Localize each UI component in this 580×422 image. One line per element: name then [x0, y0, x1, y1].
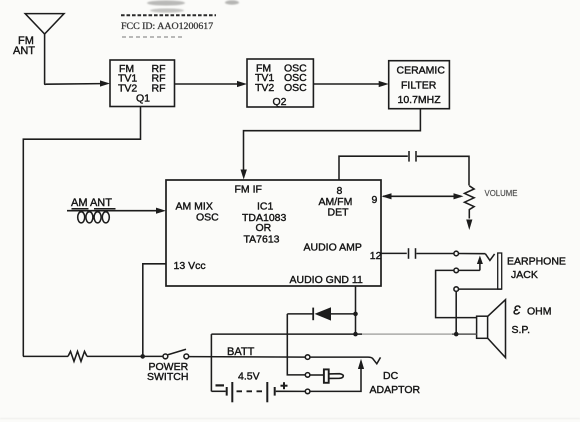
svg-text:AUDIO AMP: AUDIO AMP [304, 242, 362, 254]
svg-text:OSC: OSC [284, 82, 307, 94]
wire pin 12 to output capacitor [381, 252, 407, 254]
wire bottom ground net [211, 333, 476, 335]
svg-text:CERAMIC: CERAMIC [397, 64, 446, 76]
wire pin 9 wiper (double arrow) [382, 193, 464, 199]
label 8 OHM S.P. [512, 304, 552, 336]
svg-text:Q2: Q2 [273, 96, 287, 108]
battery 4.5V [211, 382, 287, 402]
svg-text:TV2: TV2 [255, 82, 274, 94]
wire battery minus loop [210, 334, 212, 391]
capacitor det [409, 151, 416, 162]
svg-text:AUDIO GND 11: AUDIO GND 11 [290, 274, 363, 286]
svg-text:Q1: Q1 [136, 93, 150, 105]
wire capacitor to jack tip [416, 253, 454, 255]
wire filter to IC FM IF input [241, 109, 421, 180]
svg-text:8: 8 [337, 185, 343, 197]
wire jack ring to speaker [436, 270, 477, 317]
svg-text:TA7613: TA7613 [244, 234, 280, 246]
wire Q1 to Q2 [175, 81, 248, 87]
antenna FM ANT [13, 14, 64, 84]
wire pin 8 to detector capacitor [339, 156, 408, 180]
wire antenna to Q1 [45, 80, 110, 86]
svg-text:12: 12 [370, 250, 382, 262]
speaker 8 OHM S.P. [477, 300, 506, 358]
block Q2 [247, 59, 313, 108]
svg-text:TV2: TV2 [118, 83, 137, 95]
plug DC plug symbol [310, 369, 343, 382]
wire DC jack top hook [310, 357, 381, 364]
label DC ADAPTOR [370, 370, 421, 396]
svg-text:9: 9 [372, 194, 378, 206]
svg-text:OHM: OHM [527, 306, 552, 318]
label EARPHONE JACK [507, 255, 566, 281]
svg-text:10.7MHZ: 10.7MHZ [398, 94, 442, 106]
svg-text:RF: RF [152, 83, 166, 95]
potentiometer VOLUME [464, 186, 474, 230]
svg-text:OR: OR [256, 222, 272, 234]
jack EARPHONE JACK [454, 251, 502, 291]
antenna AM ANT label [71, 197, 116, 209]
block Q1 [110, 60, 175, 107]
wire Q1 bottom to lower-left rail [23, 107, 140, 357]
FCC ID label [121, 15, 216, 37]
resistor R1 [68, 351, 87, 361]
svg-text:FILTER: FILTER [401, 80, 437, 92]
wire diode to DC jack centre [287, 314, 305, 375]
svg-text:IC1: IC1 [257, 200, 274, 212]
svg-text:FM IF: FM IF [235, 184, 262, 196]
label POWER SWITCH [147, 361, 189, 383]
wire switch to DC jack top [189, 356, 306, 359]
svg-text:ANT: ANT [13, 45, 35, 57]
svg-text:S.P.: S.P. [512, 324, 531, 336]
svg-text:FCC ID: AAO1200617: FCC ID: AAO1200617 [121, 21, 213, 32]
connector DC jack contacts [305, 355, 310, 394]
svg-text:ADAPTOR: ADAPTOR [370, 384, 421, 396]
IC U1 TDA1083/TA7613 [166, 180, 381, 286]
wire capacitor to volume pot [417, 156, 469, 185]
diode D1 [287, 307, 355, 320]
svg-text:EARPHONE: EARPHONE [507, 255, 566, 267]
svg-text:13 Vcc: 13 Vcc [174, 260, 206, 272]
wire pin 11 down [353, 286, 458, 336]
wire jack sleeve down [455, 291, 457, 334]
wire Vcc to pin 13 [143, 264, 166, 357]
svg-text:OSC: OSC [196, 211, 219, 223]
capacitor output [409, 248, 416, 259]
wire DC jack bottom with plug arrow [310, 359, 364, 392]
svg-text:4.5V: 4.5V [238, 371, 260, 383]
svg-text:BATT: BATT [227, 346, 255, 358]
filter CERAMIC FILTER 10.7MHZ [389, 61, 450, 109]
switch POWER SWITCH [163, 349, 189, 359]
junction Vcc node [140, 354, 145, 359]
wire Q2 to ceramic filter [313, 81, 388, 87]
svg-text:Ɛ: Ɛ [513, 304, 521, 318]
wire battery plus to DC jack bottom [276, 390, 306, 392]
svg-text:SWITCH: SWITCH [147, 371, 188, 383]
svg-text:AM ANT: AM ANT [71, 197, 112, 209]
svg-text:VOLUME: VOLUME [485, 189, 518, 198]
svg-text:DC: DC [383, 370, 399, 382]
svg-text:JACK: JACK [511, 269, 538, 281]
wire lower-left rail to switch [23, 355, 163, 357]
svg-text:DET: DET [328, 207, 350, 219]
inductor AM antenna coil [67, 208, 166, 223]
